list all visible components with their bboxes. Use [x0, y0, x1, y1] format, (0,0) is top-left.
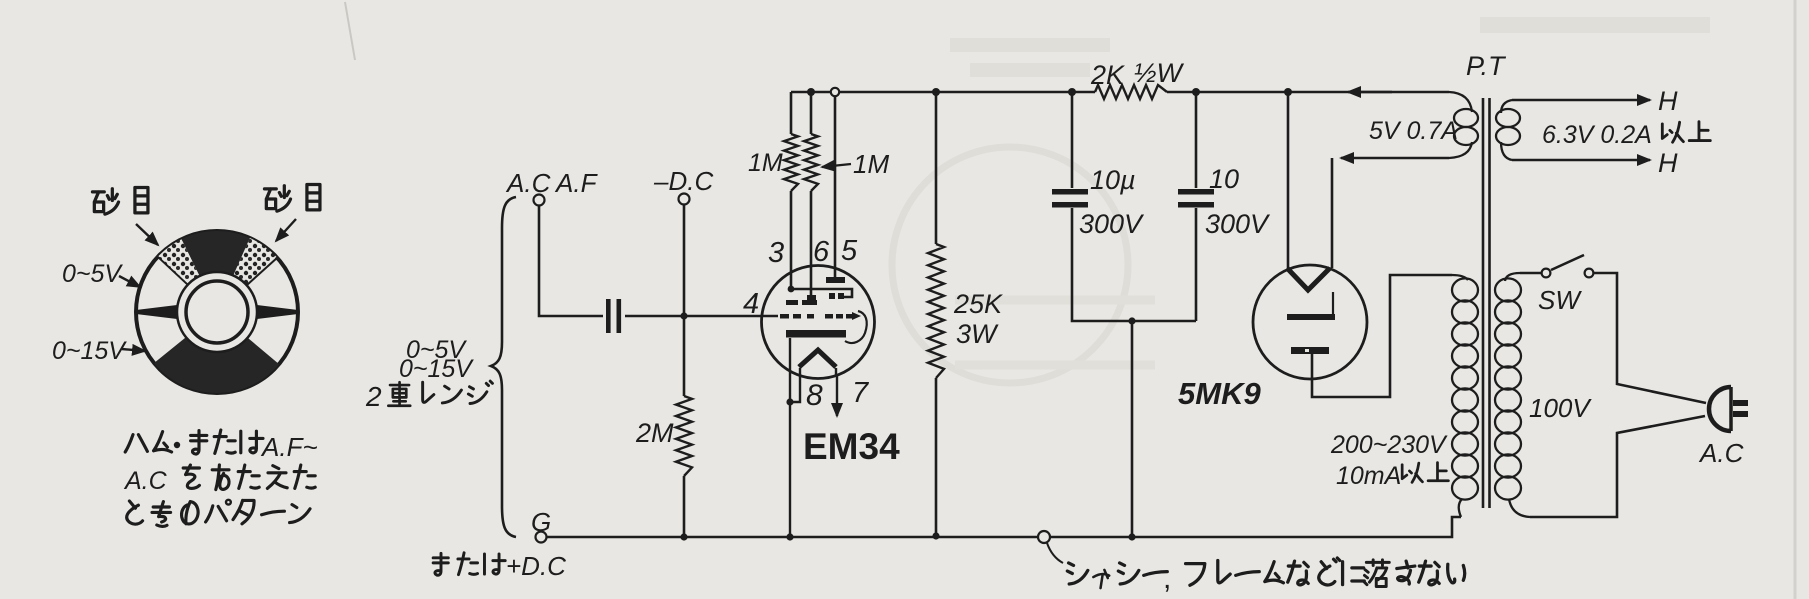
svg-text:2: 2: [365, 381, 382, 412]
svg-text:H: H: [1658, 148, 1678, 178]
svg-text:10mA: 10mA: [1336, 462, 1401, 490]
svg-text:0~5V: 0~5V: [62, 260, 123, 288]
svg-text:–D.C: –D.C: [653, 166, 713, 196]
svg-text:100V: 100V: [1529, 393, 1592, 423]
svg-text:200~230V: 200~230V: [1330, 431, 1448, 459]
svg-text:P.T: P.T: [1466, 51, 1507, 81]
svg-text:H: H: [1658, 86, 1678, 116]
svg-text:2M: 2M: [635, 418, 674, 448]
svg-text:5MK9: 5MK9: [1178, 376, 1261, 411]
svg-text:6.3V 0.2A: 6.3V 0.2A: [1542, 121, 1652, 149]
svg-text:4: 4: [743, 288, 759, 320]
svg-text:3: 3: [768, 237, 784, 269]
svg-text:A.C: A.C: [505, 168, 551, 198]
svg-text:300V: 300V: [1079, 209, 1145, 239]
svg-text:,: ,: [1163, 562, 1171, 595]
svg-text:1M: 1M: [853, 149, 889, 179]
svg-text:300V: 300V: [1205, 209, 1271, 239]
svg-text:0~15V: 0~15V: [52, 337, 127, 365]
svg-text:G: G: [531, 507, 551, 537]
svg-text:1M: 1M: [748, 149, 783, 177]
svg-text:SW: SW: [1538, 285, 1582, 315]
svg-text:8: 8: [806, 379, 823, 412]
svg-text:A.F: A.F: [554, 168, 599, 198]
svg-text:5V 0.7A: 5V 0.7A: [1369, 117, 1458, 145]
svg-text:A.C: A.C: [1698, 438, 1744, 468]
svg-text:0~15V: 0~15V: [399, 355, 474, 383]
svg-text:5: 5: [841, 235, 858, 267]
svg-text:A.F~: A.F~: [260, 432, 318, 462]
svg-text:10: 10: [1209, 164, 1239, 194]
svg-text:10µ: 10µ: [1090, 165, 1136, 195]
svg-text:3W: 3W: [956, 319, 999, 349]
svg-text:2K: 2K: [1090, 60, 1125, 90]
svg-text:+D.C: +D.C: [506, 551, 566, 581]
svg-text:7: 7: [852, 377, 870, 409]
svg-text:25K: 25K: [953, 289, 1003, 319]
svg-text:A.C: A.C: [123, 467, 168, 495]
svg-text:½W: ½W: [1134, 58, 1185, 88]
svg-text:EM34: EM34: [803, 426, 900, 467]
svg-text:6: 6: [813, 236, 830, 268]
